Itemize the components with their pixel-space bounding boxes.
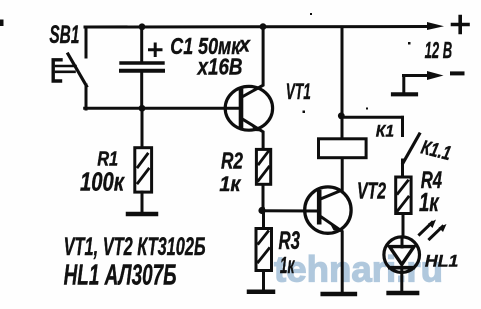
svg-text:100к: 100к: [80, 167, 125, 197]
svg-text:К1: К1: [376, 122, 394, 141]
svg-text:1к: 1к: [419, 187, 440, 217]
svg-text:R2: R2: [221, 148, 243, 174]
svg-text:12 В: 12 В: [425, 37, 453, 63]
svg-text:VT2: VT2: [357, 178, 386, 204]
svg-text:1к: 1к: [219, 172, 241, 196]
svg-text:VT1: VT1: [286, 79, 311, 104]
svg-text:х16В: х16В: [196, 54, 243, 80]
svg-text:HL1: HL1: [425, 253, 459, 271]
svg-text:HL1 АЛ307Б: HL1 АЛ307Б: [64, 260, 177, 292]
svg-text:SB1: SB1: [49, 21, 79, 49]
svg-text:1к: 1к: [280, 252, 295, 278]
svg-text:VT1, VT2 КТ3102Б: VT1, VT2 КТ3102Б: [64, 233, 206, 261]
svg-text:R3: R3: [279, 227, 301, 255]
